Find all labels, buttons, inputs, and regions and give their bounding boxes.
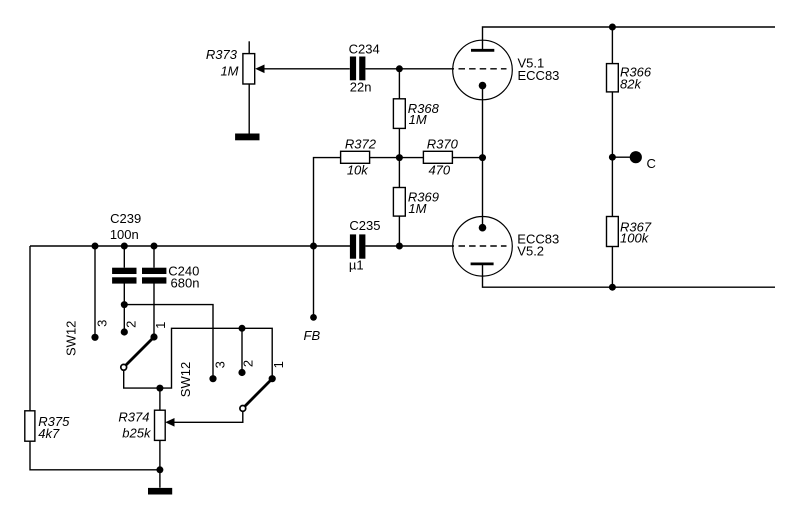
capacitor C235 xyxy=(350,234,366,258)
svg-text:470: 470 xyxy=(428,162,450,177)
wire R373 bottom to ground xyxy=(248,84,250,134)
junction main wire x154 xyxy=(151,243,158,250)
junction main wire x124 xyxy=(121,243,128,250)
wire R375 bottom xyxy=(30,441,160,470)
wire R370 left xyxy=(399,157,423,159)
wire SW terminal 3 left xyxy=(94,246,96,337)
svg-text:1: 1 xyxy=(153,322,168,329)
junction grid V5.1 xyxy=(396,65,403,72)
terminal 2 right xyxy=(238,369,245,376)
resistor R367 xyxy=(607,217,619,247)
svg-text:FB: FB xyxy=(304,328,321,343)
potentiometer R374 xyxy=(155,410,175,440)
wire R368 bottom xyxy=(398,128,400,157)
wire left column down xyxy=(29,246,31,411)
wire main mid left xyxy=(30,245,350,247)
capacitor C239 xyxy=(112,268,136,284)
svg-text:2: 2 xyxy=(123,321,138,328)
terminal 2 left xyxy=(121,328,128,335)
tube V5.1 xyxy=(453,40,513,100)
ground R374 xyxy=(148,488,172,495)
potentiometer R373 xyxy=(243,54,265,84)
wire R374 bottom lead xyxy=(159,440,161,469)
resistor R372 xyxy=(341,151,370,163)
svg-text:R374: R374 xyxy=(118,410,149,425)
tube V5.2 xyxy=(453,217,513,277)
junction R374 bottom xyxy=(156,466,163,473)
wire R372 left to FB column xyxy=(314,158,341,318)
resistor R370 xyxy=(423,151,452,163)
junction right switch bus xyxy=(239,325,246,332)
junction R374 top xyxy=(156,385,163,392)
svg-text:10k: 10k xyxy=(347,162,369,177)
terminal 1 right xyxy=(269,375,276,382)
wire top bus xyxy=(483,27,776,50)
resistor R366 xyxy=(607,64,619,92)
wire node C stub xyxy=(612,156,630,158)
wire R372 right xyxy=(370,157,400,159)
svg-text:SW12: SW12 xyxy=(64,321,79,356)
svg-text:C: C xyxy=(647,156,656,171)
capacitor C240 xyxy=(142,268,166,284)
wire R370 right xyxy=(452,157,482,159)
svg-text:R373: R373 xyxy=(206,47,238,62)
wire C235 right to V5.2 grid xyxy=(365,245,454,247)
svg-text:1M: 1M xyxy=(408,201,426,216)
wire R374 junction to right bus xyxy=(160,328,272,388)
svg-text:V5.2: V5.2 xyxy=(517,243,544,258)
wire right pole down xyxy=(174,412,243,423)
wire C234 right to grid junction xyxy=(365,68,454,70)
svg-text:C239: C239 xyxy=(110,211,141,226)
resistor R368 xyxy=(393,99,405,129)
svg-text:R372: R372 xyxy=(345,136,377,151)
wire right bus to terminal 2 right xyxy=(241,328,243,372)
ground R373 xyxy=(235,134,259,141)
svg-text:1M: 1M xyxy=(409,112,427,127)
svg-text:100k: 100k xyxy=(620,231,650,246)
wire grid junction to R368 xyxy=(398,69,400,99)
svg-text:µ1: µ1 xyxy=(349,258,364,273)
svg-text:ECC83: ECC83 xyxy=(518,68,560,83)
svg-text:1M: 1M xyxy=(220,63,238,78)
svg-text:680n: 680n xyxy=(171,276,200,291)
node FB xyxy=(310,314,317,321)
svg-text:82k: 82k xyxy=(620,76,642,91)
junction FB column xyxy=(310,243,317,250)
svg-text:C235: C235 xyxy=(349,218,380,233)
svg-text:1: 1 xyxy=(271,361,286,368)
svg-text:2: 2 xyxy=(240,360,255,367)
wire V5.1 cathode to junction xyxy=(482,86,484,158)
svg-text:3: 3 xyxy=(95,320,110,327)
svg-text:22n: 22n xyxy=(350,80,372,95)
svg-text:C234: C234 xyxy=(349,41,380,56)
terminal 1 left xyxy=(150,333,157,340)
svg-text:R370: R370 xyxy=(427,136,459,151)
wire C239 top lead xyxy=(123,246,125,268)
junction top right xyxy=(609,24,616,31)
wire C240 bottom to terminal 1 left xyxy=(153,284,155,338)
junction bottom right xyxy=(609,284,616,291)
wire junction C239 to right switch terminal 3 xyxy=(124,305,213,379)
wire right column mid xyxy=(611,92,613,217)
svg-text:3: 3 xyxy=(212,361,227,368)
junction grid V5.2 xyxy=(396,243,403,250)
wire junction to terminal 2 left xyxy=(123,305,125,332)
switch SW12 right xyxy=(240,379,272,412)
wire R369 bottom xyxy=(398,216,400,246)
junction cathode column xyxy=(479,154,486,161)
wire junction to V5.2 cathode xyxy=(482,158,484,228)
wire bottom bus xyxy=(483,264,776,287)
node C xyxy=(630,151,642,163)
svg-text:SW12: SW12 xyxy=(178,362,193,397)
resistor R375 xyxy=(25,411,35,441)
wire R374 junction to ground xyxy=(159,470,161,488)
wire R373 wiper to C234 xyxy=(264,68,350,70)
wire right column lower xyxy=(611,247,613,288)
wire right column upper xyxy=(611,27,613,64)
switch SW12 left xyxy=(121,337,154,370)
terminal 3 left xyxy=(91,334,98,341)
wire C240 top lead xyxy=(153,246,155,268)
svg-text:b25k: b25k xyxy=(122,426,152,441)
junction R372 R370 xyxy=(396,154,403,161)
junction node C column xyxy=(609,154,616,161)
terminal 3 right xyxy=(209,375,216,382)
wire R374 top lead xyxy=(159,388,161,410)
svg-text:4k7: 4k7 xyxy=(38,426,60,441)
wire R369 top xyxy=(398,158,400,188)
capacitor C234 xyxy=(350,57,366,81)
wire left pole to R374 top junction xyxy=(124,371,160,388)
junction main wire x95 xyxy=(92,243,99,250)
resistor R369 xyxy=(393,188,405,217)
wire R373 top stub xyxy=(248,41,250,53)
svg-text:100n: 100n xyxy=(110,227,139,242)
wire C239 bottom to junction xyxy=(123,284,125,305)
junction below C239 xyxy=(121,301,128,308)
